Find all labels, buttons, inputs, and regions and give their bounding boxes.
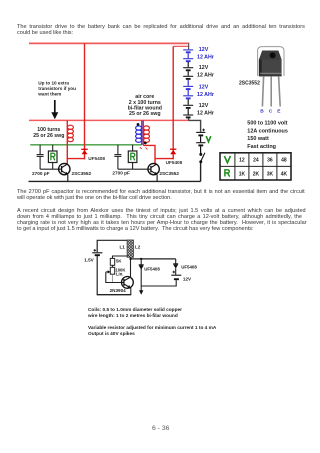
paragraph 2 xyxy=(17,189,305,195)
svg-text:2700 pF: 2700 pF xyxy=(112,170,130,175)
resistor R1 xyxy=(52,145,54,151)
wire battery - down to ground rail xyxy=(96,256,98,295)
wire battery bottom to V-battery branch xyxy=(189,117,201,131)
wire L1 bottom to resistor chain xyxy=(113,256,129,258)
svg-text:2SC3552: 2SC3552 xyxy=(159,171,179,176)
wire emitter ground rail xyxy=(29,180,201,182)
svg-text:L2: L2 xyxy=(135,245,141,250)
wire negative return xyxy=(141,281,176,286)
svg-text:12V: 12V xyxy=(183,277,192,282)
node dot bottom xyxy=(144,142,147,145)
pot wiper arm xyxy=(106,271,109,273)
svg-text:150 watt: 150 watt xyxy=(247,136,269,142)
paragraph 1 xyxy=(17,24,305,30)
svg-text:12V: 12V xyxy=(199,65,209,71)
svg-text:12 AHr: 12 AHr xyxy=(197,92,214,98)
svg-text:12V: 12V xyxy=(199,47,209,53)
svg-text:4K: 4K xyxy=(281,171,288,177)
svg-text:12V: 12V xyxy=(199,103,209,109)
battery BT2 12V xyxy=(173,271,176,273)
svg-text:E: E xyxy=(277,109,281,115)
coil L1-L2 bifilar xyxy=(127,240,134,257)
svg-text:12 AHr: 12 AHr xyxy=(197,110,214,116)
svg-text:12: 12 xyxy=(239,158,245,164)
svg-text:48: 48 xyxy=(281,158,287,164)
wire emitter down to ground xyxy=(130,288,132,295)
svg-text:want them: want them xyxy=(37,92,61,97)
wire from battery + to top rail xyxy=(97,240,133,252)
svg-text:Up to 10 extra: Up to 10 extra xyxy=(38,81,69,86)
svg-text:B: B xyxy=(260,109,264,115)
annotation: up to 10 extra transistors xyxy=(37,81,76,97)
svg-text:1.5V: 1.5V xyxy=(84,258,94,263)
coil L-1 label xyxy=(33,127,64,139)
battery B3 12V xyxy=(183,80,193,99)
resistor R1 5K xyxy=(110,258,114,265)
svg-text:2SC3552: 2SC3552 xyxy=(239,81,260,87)
table V/R xyxy=(220,153,291,180)
battery B4 12V xyxy=(183,99,193,117)
transistor package 2SC3552 xyxy=(239,47,288,150)
svg-text:500 to 1100 volt: 500 to 1100 volt xyxy=(247,121,287,127)
svg-text:1K: 1K xyxy=(239,171,246,177)
wire top +V rail xyxy=(29,42,189,44)
svg-text:12 AHr: 12 AHr xyxy=(197,72,214,78)
node junction xyxy=(140,258,142,260)
svg-text:25 or 26 swg: 25 or 26 swg xyxy=(33,133,64,139)
node junction collector xyxy=(130,258,132,260)
svg-text:2700 pF: 2700 pF xyxy=(32,171,50,176)
wire collector up to coil xyxy=(130,257,132,278)
svg-text:L1: L1 xyxy=(120,245,126,250)
svg-text:UF5408: UF5408 xyxy=(166,160,183,165)
svg-text:12 AHr: 12 AHr xyxy=(197,55,214,61)
svg-text:Lin.: Lin. xyxy=(116,272,123,277)
svg-text:36: 36 xyxy=(267,158,273,164)
air core label xyxy=(128,94,162,117)
transistor Q2 2SC3552 xyxy=(148,163,159,174)
page number xyxy=(152,425,169,432)
svg-text:24: 24 xyxy=(253,158,259,164)
transistor Q1 2SC3552 xyxy=(59,163,70,174)
capacitor C2 2700pF xyxy=(117,145,119,154)
bifilar coil T1 xyxy=(141,120,143,144)
svg-text:UF5408: UF5408 xyxy=(181,265,197,270)
bottom bold notes xyxy=(88,308,182,313)
resistor R2 xyxy=(132,145,134,151)
svg-text:2SC3552: 2SC3552 xyxy=(72,171,92,176)
coil L1 (100 turns) xyxy=(66,120,68,164)
diode D2 UF5408 xyxy=(175,259,177,264)
battery V variable xyxy=(196,129,205,153)
SCHEMATIC1 xyxy=(29,43,292,294)
transistor Q1 2N3904 xyxy=(122,277,134,289)
potentiometer VR1 100K xyxy=(110,267,114,274)
svg-text:UF5408: UF5408 xyxy=(144,266,160,271)
svg-text:12A continuous: 12A continuous xyxy=(247,128,288,134)
svg-text:transistors if you: transistors if you xyxy=(38,86,76,91)
svg-text:Fast acting: Fast acting xyxy=(247,144,276,150)
svg-text:12V: 12V xyxy=(199,84,209,90)
diode D2 UF5408 xyxy=(172,46,174,159)
svg-text:5K: 5K xyxy=(116,259,121,264)
wire coil2 to collector2 xyxy=(143,145,155,164)
wire battery return rail xyxy=(29,119,189,121)
wire base2 xyxy=(118,168,151,170)
battery labels xyxy=(197,47,214,116)
capacitor C1 2700pF xyxy=(39,145,41,154)
battery B2 12V xyxy=(183,62,193,79)
wire output from collector node xyxy=(131,258,176,260)
table header letter V xyxy=(224,156,230,163)
svg-text:UF5408: UF5408 xyxy=(88,156,105,161)
wire ground rail left xyxy=(97,294,132,296)
wire feeder from D2 to battery top xyxy=(173,45,189,47)
paragraph 3 xyxy=(17,208,306,214)
diode D1 UF5408 xyxy=(84,43,86,159)
battery B1 12V xyxy=(183,50,193,61)
arrow down xyxy=(54,100,56,114)
node dot top xyxy=(137,123,140,126)
battery BT1 1.5V xyxy=(94,249,97,251)
svg-text:2N3904: 2N3904 xyxy=(110,288,127,293)
svg-text:C: C xyxy=(269,109,273,115)
wire battery top stub xyxy=(188,43,190,49)
svg-text:25 or 26 swg: 25 or 26 swg xyxy=(129,111,161,117)
SCHEMATIC2 xyxy=(84,240,197,295)
diode D1 UF5408 xyxy=(140,259,142,291)
wire collector1 junction xyxy=(67,158,86,160)
winding sense marks xyxy=(140,147,142,149)
svg-text:2K: 2K xyxy=(253,171,260,177)
wire base1 xyxy=(40,168,62,170)
switch S1 xyxy=(199,153,202,156)
table header letter R xyxy=(225,170,230,177)
base drive green rail xyxy=(30,144,142,146)
wire collector2 junction xyxy=(155,158,174,160)
svg-text:3K: 3K xyxy=(267,171,274,177)
